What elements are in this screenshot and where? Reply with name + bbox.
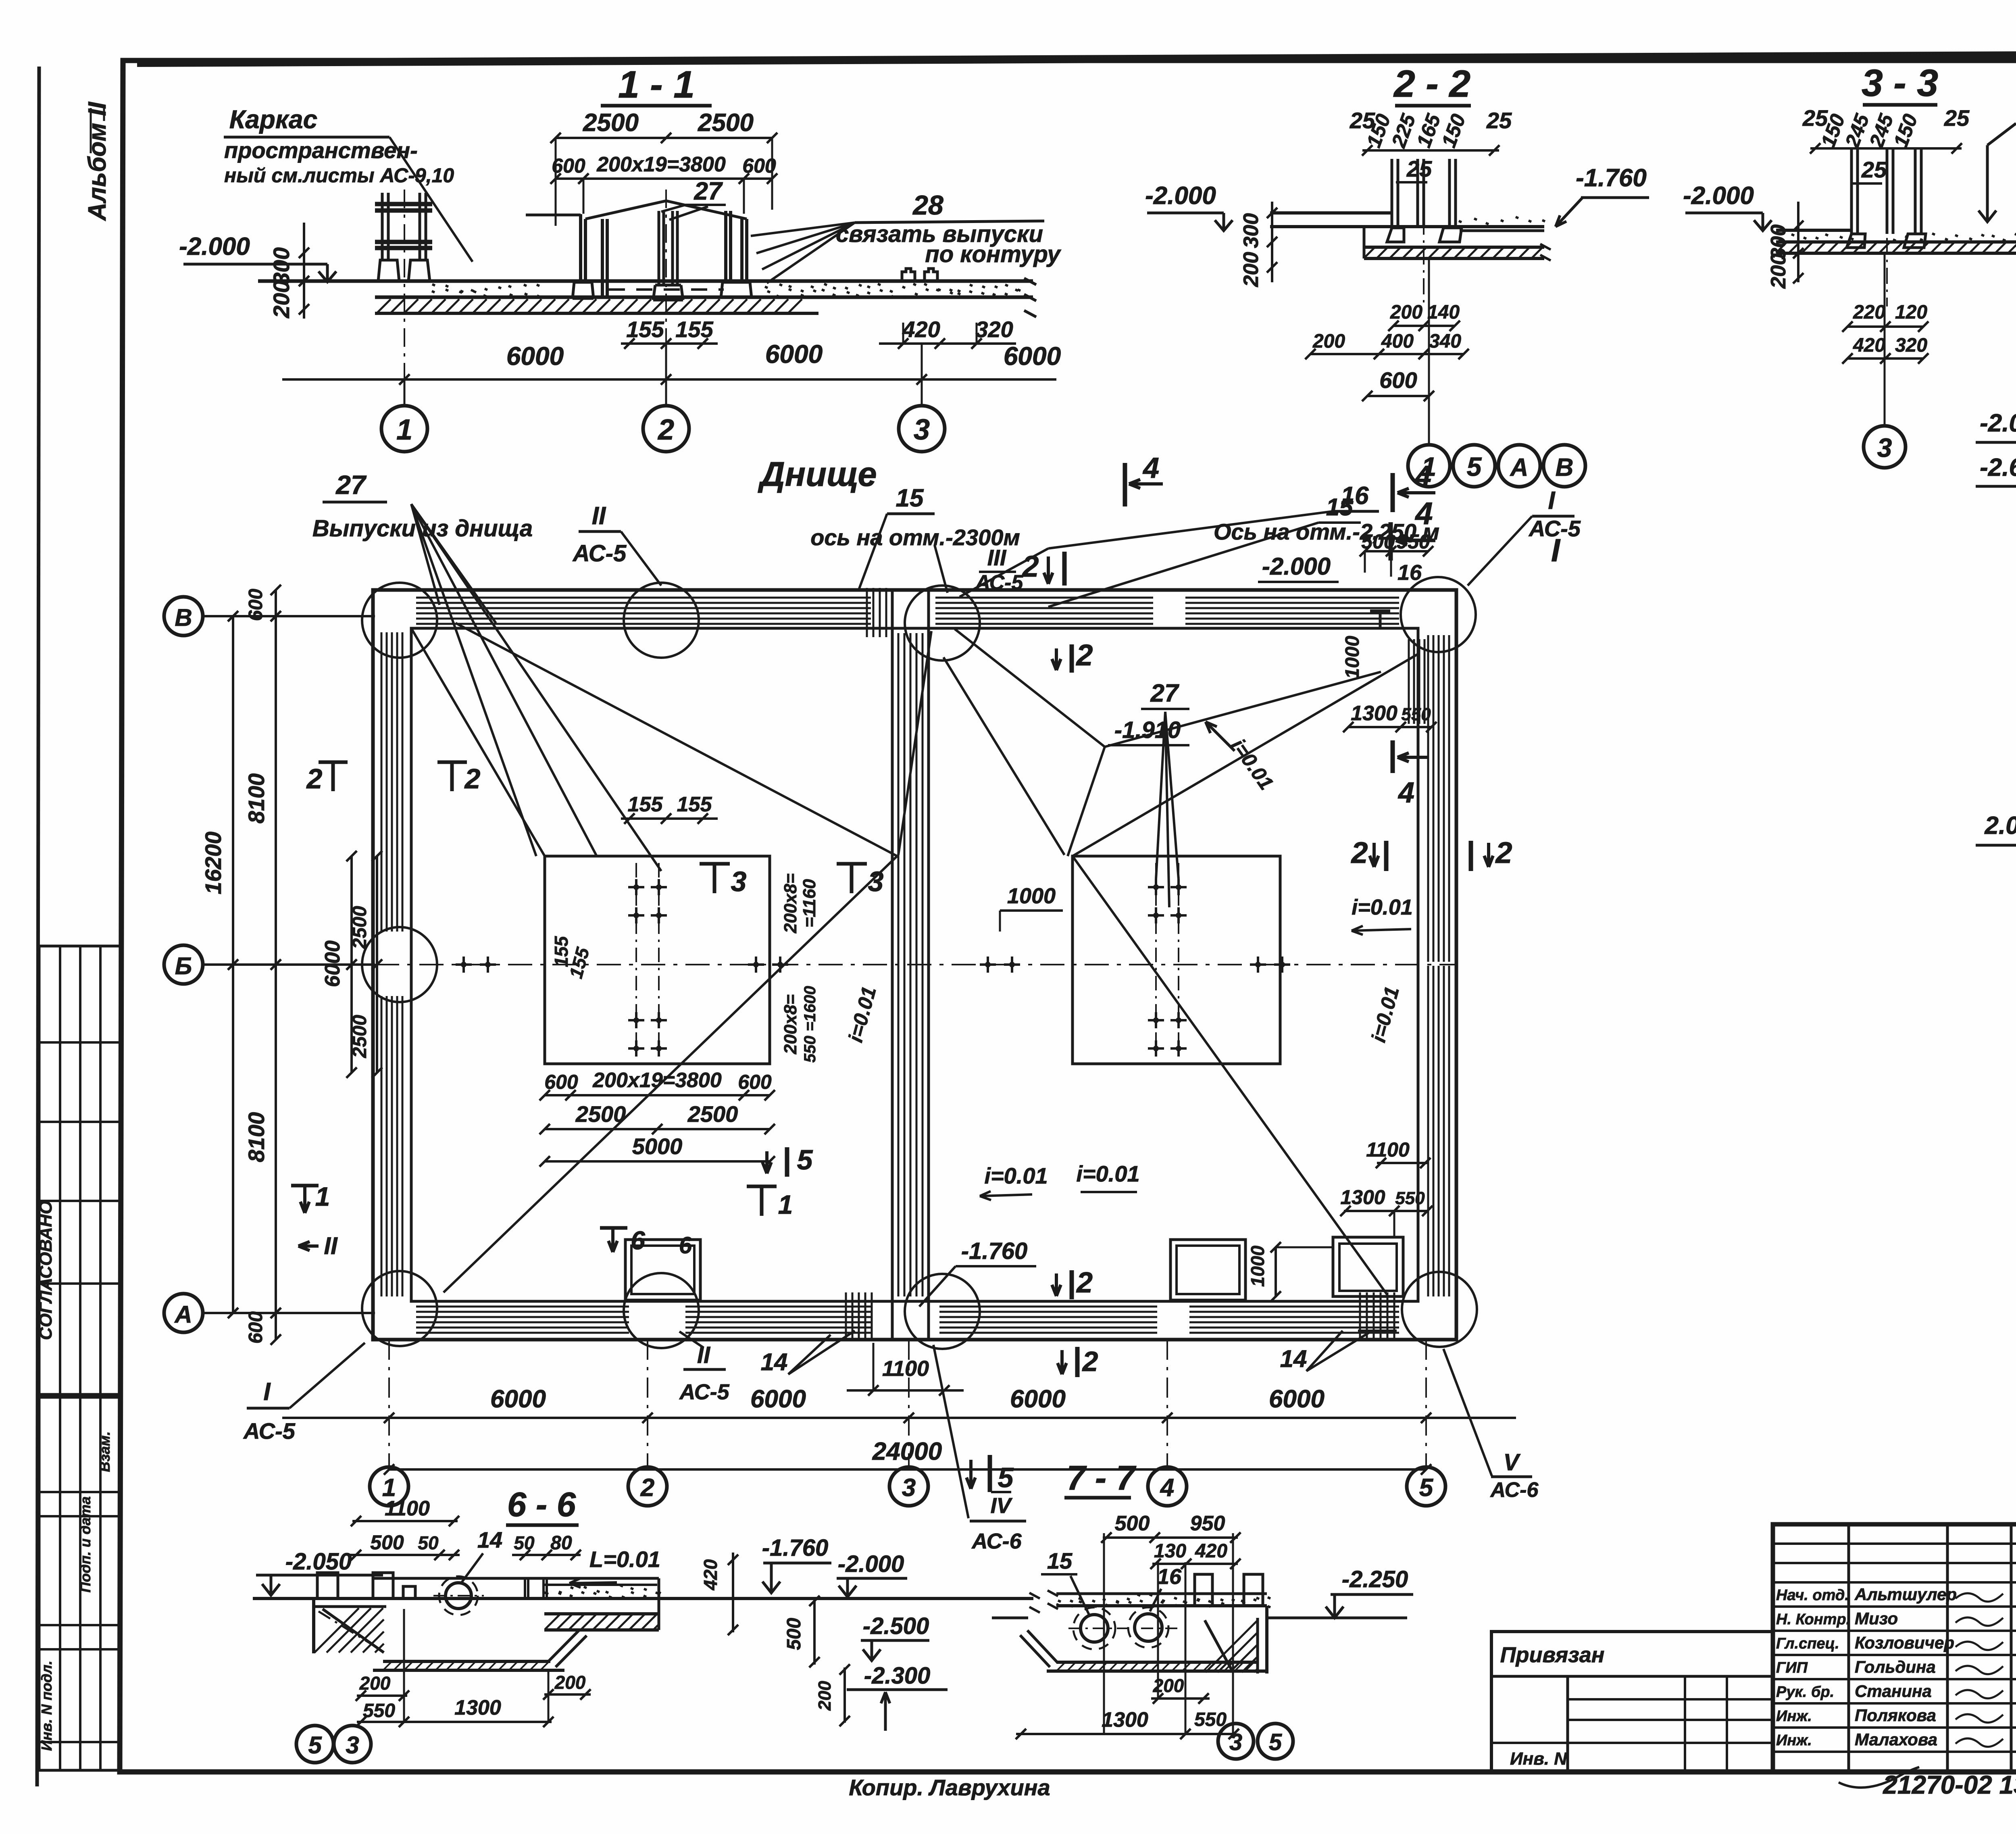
plan flag 5 and 6 bottom left (785, 1147, 789, 1177)
svg-text:27: 27 (1150, 679, 1179, 707)
plan flag 1 bottom left half (747, 1185, 777, 1188)
svg-text:550: 550 (363, 1700, 395, 1721)
3-3 top dims (1810, 147, 1962, 150)
svg-text:6000: 6000 (750, 1385, 806, 1413)
svg-text:16: 16 (1157, 1565, 1182, 1589)
svg-text:500: 500 (370, 1531, 404, 1554)
svg-text:пространствен-: пространствен- (224, 138, 418, 163)
svg-text:i=0.01: i=0.01 (1352, 895, 1413, 919)
1-1 curb battlements right (902, 269, 915, 282)
svg-text:550: 550 (1194, 1709, 1227, 1730)
svg-text:Альтшулер: Альтшулер (1854, 1585, 1957, 1604)
7-7 battlement teeth (1195, 1574, 1212, 1606)
svg-text:3: 3 (914, 414, 930, 446)
svg-text:600: 600 (738, 1071, 772, 1093)
frame top thick band (137, 53, 2016, 63)
1-1 wall feet (573, 282, 594, 298)
svg-text:1: 1 (315, 1182, 330, 1211)
svg-text:3 - 3: 3 - 3 (1862, 62, 1938, 104)
svg-text:-1.910: -1.910 (1114, 717, 1181, 743)
svg-text:Альбом II: Альбом II (83, 101, 111, 221)
svg-text:400: 400 (1381, 331, 1414, 352)
2-2 top dims (1362, 149, 1499, 152)
svg-text:-2.500: -2.500 (863, 1613, 929, 1639)
svg-text:24000: 24000 (872, 1438, 942, 1465)
svg-text:-2.250: -2.250 (1342, 1566, 1408, 1592)
svg-text:320: 320 (1895, 335, 1927, 356)
svg-text:=1160: =1160 (800, 879, 819, 927)
svg-text:14: 14 (761, 1348, 788, 1375)
svg-text:Подп. и дата: Подп. и дата (77, 1496, 94, 1592)
6-6 battlement teeth (317, 1573, 338, 1598)
plan inner vertical dims 6000 2500 2500 (350, 856, 353, 1073)
svg-text:Инж.: Инж. (1776, 1708, 1812, 1725)
svg-text:27: 27 (335, 470, 367, 500)
svg-text:4: 4 (1397, 777, 1414, 809)
svg-text:Днище: Днище (757, 455, 877, 494)
svg-text:1: 1 (778, 1190, 793, 1219)
svg-text:3: 3 (346, 1732, 359, 1759)
svg-text:5000: 5000 (632, 1134, 683, 1159)
svg-text:-2.000: -2.000 (179, 233, 250, 261)
svg-text:2: 2 (1075, 638, 1093, 672)
svg-text:600: 600 (742, 154, 776, 177)
svg-text:6000: 6000 (506, 342, 564, 371)
svg-text:А: А (174, 1301, 192, 1328)
plan flag 5 bottom (988, 1455, 992, 1492)
svg-text:-2.000: -2.000 (1145, 182, 1216, 210)
svg-text:АС-5: АС-5 (572, 540, 627, 567)
svg-text:200: 200 (269, 280, 294, 318)
svg-text:-2.300: -2.300 (864, 1663, 930, 1689)
svg-text:L=0.01: L=0.01 (589, 1546, 660, 1572)
6-6 pipe circle (446, 1583, 471, 1609)
6-6 left wall block (312, 1598, 315, 1653)
plan small pit bottom right half (1170, 1240, 1245, 1300)
svg-text:1300: 1300 (1340, 1186, 1385, 1209)
plan flag 2 pair mid right (1384, 841, 1389, 871)
svg-text:Каркас: Каркас (229, 105, 317, 134)
plan flag 4 mid partition top (1123, 463, 1127, 506)
plan flag II left (298, 1244, 319, 1248)
svg-text:50: 50 (514, 1532, 535, 1553)
svg-text:1100: 1100 (882, 1357, 929, 1381)
plan dim 1300 550 right (1348, 726, 1431, 728)
3-3 left vertical dim (1797, 202, 1799, 282)
1-1 dashed construction line (609, 288, 724, 291)
plan diagonal leaders web (456, 623, 897, 856)
plan flag 2 pair upper (1062, 552, 1067, 586)
plan rebar bundle top at partition (866, 588, 868, 637)
svg-text:320: 320 (975, 317, 1013, 342)
svg-text:50: 50 (418, 1532, 439, 1553)
plan flag 4 top right (1391, 473, 1395, 512)
plan rebar bundle bottom left of partition (845, 1292, 847, 1339)
svg-text:Малахова: Малахова (1855, 1730, 1937, 1749)
svg-text:-2.000: -2.000 (1980, 409, 2016, 437)
svg-text:16: 16 (1397, 561, 1422, 585)
plan flag 4 right lower (1391, 740, 1395, 773)
1-1 speckle bands (432, 284, 539, 292)
plan flag 2 bottom mid (1070, 1270, 1074, 1299)
svg-text:6000: 6000 (490, 1385, 546, 1413)
2-2 left vertical dim (1271, 202, 1273, 282)
svg-text:АС-5: АС-5 (243, 1418, 296, 1444)
3-3 axis circle 3 (1884, 253, 1886, 426)
1-1 dim 155 155 (621, 342, 718, 345)
svg-text:1000: 1000 (1342, 636, 1363, 679)
svg-text:950: 950 (1190, 1512, 1225, 1535)
svg-text:АС-5: АС-5 (1528, 516, 1581, 541)
svg-text:420: 420 (700, 1559, 721, 1590)
svg-text:2500: 2500 (349, 906, 371, 949)
1-1 left vertical dim 300/200 (303, 223, 305, 319)
svg-text:-1.760: -1.760 (1576, 164, 1647, 192)
svg-text:200: 200 (1767, 254, 1790, 289)
svg-text:2: 2 (1082, 1346, 1098, 1377)
left stamp lower table (39, 1397, 120, 1770)
2-2 dims below (1393, 325, 1455, 327)
svg-text:155: 155 (628, 793, 663, 816)
plan flag 2 below wall (1075, 1347, 1080, 1377)
1-1 dim 600 200x19=3800 600 (556, 177, 772, 180)
svg-text:Инв. N подл.: Инв. N подл. (38, 1661, 55, 1751)
svg-text:550 =1600: 550 =1600 (801, 986, 819, 1063)
svg-text:1300: 1300 (454, 1696, 501, 1719)
plan dims 155 155 inside left (621, 817, 718, 820)
svg-text:500: 500 (1361, 530, 1395, 553)
svg-text:120: 120 (1895, 302, 1927, 323)
2-2 axis circles (1428, 258, 1430, 444)
svg-text:16200: 16200 (200, 832, 226, 894)
plan flags 3 3 near partition (700, 862, 730, 866)
svg-text:420: 420 (1853, 335, 1885, 356)
plan bottom dim chain 6000 x4 (282, 1417, 1516, 1419)
svg-text:2: 2 (1495, 836, 1512, 869)
svg-text:ГИП: ГИП (1776, 1659, 1808, 1676)
svg-text:Нач. отд.: Нач. отд. (1776, 1587, 1849, 1604)
plan top wall rebar stripes (416, 597, 871, 599)
svg-text:Станина: Станина (1855, 1682, 1932, 1701)
svg-text:6000: 6000 (1269, 1385, 1325, 1413)
svg-text:-2.000: -2.000 (1262, 553, 1331, 580)
svg-text:27: 27 (694, 177, 723, 205)
svg-text:155: 155 (626, 317, 664, 342)
svg-text:550: 550 (1395, 1188, 1425, 1208)
1-1 dim 420 320 (879, 342, 1016, 345)
svg-text:4: 4 (1160, 1474, 1174, 1502)
2-2 flag 4 below (1389, 522, 1393, 561)
3-3 slab (1779, 234, 1854, 240)
plan inner wall rectangle (411, 628, 1418, 1301)
svg-text:340: 340 (1429, 331, 1461, 352)
svg-text:200: 200 (359, 1673, 391, 1694)
svg-text:7 - 7: 7 - 7 (1066, 1459, 1137, 1497)
svg-text:8100: 8100 (244, 773, 269, 824)
plan left pit rectangle (545, 856, 770, 1064)
svg-text:АС-6: АС-6 (971, 1529, 1022, 1553)
plan bolt crosses left (628, 886, 644, 888)
svg-text:Привязан: Привязан (1500, 1643, 1605, 1667)
svg-text:Копир. Лаврухина: Копир. Лаврухина (849, 1775, 1050, 1800)
plan i=0.01 arrow upleft (1206, 722, 1235, 751)
plan left dim chain 8100 (275, 590, 277, 1340)
7-7 pipe circles (1081, 1615, 1108, 1642)
svg-text:550: 550 (1401, 704, 1431, 724)
svg-text:Инв. N: Инв. N (1510, 1749, 1567, 1769)
svg-text:5: 5 (797, 1144, 813, 1175)
svg-text:200x19=3800: 200x19=3800 (596, 153, 726, 176)
plan corner detail circles (362, 583, 437, 658)
svg-text:200x8=: 200x8= (781, 873, 800, 934)
plan left flags (319, 761, 348, 764)
svg-text:200: 200 (1390, 302, 1422, 323)
plan T mark right (1370, 610, 1390, 613)
svg-text:5: 5 (998, 1462, 1014, 1493)
svg-text:1100: 1100 (385, 1497, 430, 1520)
svg-text:3: 3 (1229, 1729, 1242, 1755)
svg-text:130: 130 (1154, 1540, 1186, 1562)
svg-text:2500: 2500 (349, 1015, 371, 1058)
svg-text:5: 5 (1467, 452, 1482, 481)
svg-text:4: 4 (1142, 452, 1159, 484)
svg-text:2500: 2500 (687, 1101, 738, 1127)
svg-text:2: 2 (306, 763, 323, 794)
svg-text:3: 3 (902, 1474, 916, 1502)
6-6 axis circles 5 3 (296, 1726, 333, 1763)
svg-text:950: 950 (1396, 530, 1430, 553)
svg-text:5: 5 (308, 1732, 322, 1759)
1-1 bottom 6000 dim (282, 378, 1056, 381)
svg-text:5: 5 (1269, 1729, 1282, 1755)
title block outer (1773, 1524, 2016, 1772)
plan pit centerlines left (635, 863, 637, 1057)
svg-text:6000: 6000 (1010, 1385, 1066, 1413)
svg-text:2: 2 (1350, 836, 1368, 869)
svg-text:3: 3 (731, 866, 747, 897)
svg-text:-2.050: -2.050 (285, 1548, 352, 1575)
1-1 column at axis 1 (381, 193, 384, 260)
1-1 axis circles 1 2 3 (404, 379, 406, 405)
plan right half diagonals (955, 629, 1105, 747)
svg-text:-2.600: -2.600 (1980, 454, 2016, 481)
plan bottom axis circles (370, 1467, 408, 1506)
plan partition walls (891, 590, 894, 1340)
svg-text:200: 200 (554, 1672, 586, 1693)
plan left wall rebar stripes (381, 632, 383, 932)
svg-text:25: 25 (1486, 108, 1512, 133)
svg-text:600: 600 (245, 1311, 267, 1344)
svg-text:1: 1 (396, 414, 412, 446)
plan bolt crosses right (1148, 886, 1164, 888)
svg-text:15: 15 (896, 484, 924, 512)
note leader (1987, 123, 2016, 145)
svg-text:1300: 1300 (1351, 702, 1397, 725)
svg-text:15: 15 (1047, 1548, 1073, 1573)
plan left axis circles (164, 597, 203, 636)
svg-text:Инж.: Инж. (1776, 1732, 1812, 1749)
svg-text:80: 80 (550, 1532, 572, 1554)
plan fan leaders from 27 (411, 504, 439, 605)
svg-text:Мизо: Мизо (1855, 1609, 1898, 1628)
svg-text:-2.000: -2.000 (1683, 182, 1754, 210)
svg-text:420: 420 (902, 317, 940, 342)
svg-text:25: 25 (1944, 105, 1970, 131)
karkas leader (389, 137, 473, 262)
left stamp upper table (39, 946, 120, 1394)
7-7 axis circles 3 5 (1218, 1724, 1254, 1759)
svg-text:4: 4 (1414, 460, 1431, 492)
svg-text:V: V (1504, 1449, 1521, 1476)
svg-text:АС-5: АС-5 (975, 571, 1024, 594)
1-1 cut arrows right end (1024, 278, 1036, 317)
7-7 left pit wall slope (1027, 1630, 1057, 1662)
svg-text:2: 2 (657, 414, 674, 446)
plan bottom wall rebar stripes (416, 1306, 629, 1308)
svg-text:1300: 1300 (1102, 1708, 1148, 1732)
svg-text:200: 200 (815, 1681, 835, 1711)
svg-text:2500: 2500 (575, 1101, 626, 1127)
svg-text:Рук. бр.: Рук. бр. (1776, 1684, 1834, 1701)
plan BR small pit (1333, 1237, 1403, 1296)
svg-text:2.050: 2.050 (1984, 812, 2016, 840)
7-7 deck drop right (1265, 1606, 1268, 1674)
svg-text:i=0.01: i=0.01 (984, 1163, 1048, 1188)
svg-text:II: II (324, 1232, 338, 1259)
svg-text:В: В (175, 604, 192, 631)
svg-text:Н. Контр.: Н. Контр. (1776, 1611, 1850, 1628)
svg-text:200: 200 (1239, 252, 1263, 288)
svg-text:-1.760: -1.760 (961, 1238, 1027, 1264)
plan left dim chain 16200 (232, 616, 234, 1313)
svg-text:15: 15 (1326, 494, 1354, 521)
plan flag 1 left (303, 1186, 306, 1213)
plan axis dash-dot lines (202, 615, 375, 617)
1-1 tank walls (579, 214, 582, 282)
svg-text:II: II (592, 502, 606, 530)
svg-text:2: 2 (1076, 1267, 1093, 1299)
svg-text:155: 155 (675, 317, 713, 342)
svg-text:25: 25 (1406, 156, 1432, 181)
7-7 deck speckle band left (1056, 1592, 1267, 1595)
svg-text:В: В (1556, 454, 1574, 481)
svg-text:СОГЛАСОВАНО: СОГЛАСОВАНО (36, 1200, 56, 1340)
svg-text:-1.760: -1.760 (762, 1535, 828, 1561)
svg-text:Гл.спец.: Гл.спец. (1776, 1635, 1839, 1652)
svg-text:600: 600 (1379, 367, 1417, 393)
svg-text:155: 155 (677, 793, 712, 816)
6-6 screed speckle band (544, 1584, 657, 1586)
7-7 pit floor (1056, 1661, 1258, 1664)
svg-text:Козловичер: Козловичер (1855, 1633, 1954, 1652)
6-6 break marks right (1029, 1593, 1040, 1613)
svg-text:200x8=: 200x8= (781, 994, 800, 1055)
svg-text:2500: 2500 (583, 109, 639, 137)
title block signatures squiggles (1956, 1593, 2003, 1602)
title block left small rows (1773, 1542, 2016, 1545)
svg-text:i=0.01: i=0.01 (1076, 1161, 1139, 1186)
svg-text:IV: IV (990, 1494, 1012, 1518)
svg-text:1 - 1: 1 - 1 (618, 63, 695, 106)
plan bottom dim 24000 (389, 1468, 1426, 1471)
svg-text:-2.000: -2.000 (838, 1551, 904, 1577)
6-6 deck lines (253, 1597, 1033, 1600)
svg-text:420: 420 (1195, 1540, 1227, 1562)
svg-text:2500: 2500 (698, 109, 754, 137)
svg-text:600: 600 (544, 1071, 578, 1093)
svg-text:I: I (263, 1378, 271, 1406)
sheet left edge line (37, 67, 39, 1786)
svg-text:25: 25 (1861, 157, 1887, 182)
svg-text:600: 600 (245, 589, 267, 621)
svg-text:14: 14 (1280, 1345, 1307, 1372)
plan right wall rebar stripes (1427, 635, 1429, 962)
1-1 hatch band (377, 299, 802, 313)
plan small pit bottom left half (625, 1240, 700, 1300)
svg-text:14: 14 (477, 1527, 502, 1553)
svg-text:5: 5 (1419, 1474, 1434, 1502)
svg-text:по контуру: по контуру (925, 241, 1061, 267)
svg-text:1100: 1100 (1366, 1138, 1410, 1161)
svg-text:140: 140 (1427, 302, 1460, 323)
svg-text:6000: 6000 (765, 340, 823, 369)
plan bottom dim 1100 (847, 1389, 964, 1392)
plan rebar bundle bottom right (1359, 1292, 1361, 1341)
1-1 dim 2500+2500 (556, 137, 772, 139)
svg-text:6000: 6000 (1004, 342, 1061, 371)
svg-text:1000: 1000 (1007, 884, 1056, 908)
svg-text:Взам.: Взам. (96, 1431, 113, 1472)
svg-text:I: I (1548, 487, 1556, 515)
svg-text:А: А (1510, 454, 1529, 481)
plan dims under left pit (545, 1094, 770, 1096)
svg-text:600: 600 (552, 154, 585, 177)
6-6 deck posts (524, 1578, 526, 1598)
svg-text:1000: 1000 (1247, 1245, 1268, 1287)
1-1 slab lines (258, 279, 1033, 283)
svg-text:6: 6 (679, 1232, 692, 1259)
svg-text:500: 500 (783, 1618, 805, 1650)
6-6 right pit wall slope (548, 1630, 579, 1661)
svg-text:6 - 6: 6 - 6 (507, 1486, 576, 1524)
svg-text:Б: Б (175, 952, 192, 980)
svg-text:300: 300 (1239, 213, 1263, 248)
svg-text:200: 200 (1312, 331, 1345, 352)
7-7 right wall hatch block (1256, 1618, 1259, 1674)
svg-text:III: III (987, 545, 1007, 570)
svg-text:3: 3 (1877, 433, 1892, 463)
svg-text:6000: 6000 (321, 940, 344, 987)
svg-text:2: 2 (640, 1474, 654, 1502)
2-2 column (1391, 159, 1393, 228)
6-6 elevated deck right (544, 1612, 659, 1615)
3-3 column (1850, 148, 1853, 234)
svg-text:200x19=3800: 200x19=3800 (592, 1069, 722, 1092)
plan dim 500 950 top right (1365, 550, 1428, 552)
svg-text:2 - 2: 2 - 2 (1393, 63, 1470, 105)
svg-text:220: 220 (1853, 302, 1885, 323)
svg-text:2: 2 (1021, 550, 1039, 583)
plan outer wall rectangle (373, 590, 1456, 1340)
svg-text:8100: 8100 (244, 1112, 269, 1163)
plan right pit rectangle (1073, 856, 1280, 1064)
svg-text:2: 2 (464, 763, 481, 794)
svg-text:6: 6 (631, 1226, 645, 1255)
3-3 dims below (1847, 325, 1923, 328)
2-2 slab (1270, 211, 1392, 215)
svg-text:АС-6: АС-6 (1490, 1478, 1539, 1502)
svg-text:АС-5: АС-5 (679, 1380, 729, 1404)
